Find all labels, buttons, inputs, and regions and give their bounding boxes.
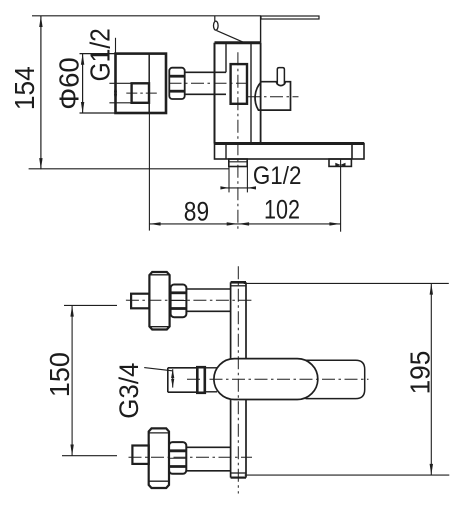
bottom knob lower cap line xyxy=(149,480,169,482)
lever underside diagonal xyxy=(217,31,244,43)
body left edge xyxy=(214,43,216,144)
G1/2 fitting arrow left xyxy=(220,186,229,189)
wall plate top edge xyxy=(215,142,365,145)
G3/4 arrow down xyxy=(171,379,174,388)
wall plate vertical right edge upper xyxy=(245,282,247,358)
dim 154 dimension line xyxy=(40,16,42,170)
handle bottom edge + extension xyxy=(80,112,167,114)
dim phi60 arrow up xyxy=(81,54,84,65)
G1/2 arrow down xyxy=(114,94,117,103)
top connector knob xyxy=(149,272,169,330)
dim phi60 dimension line xyxy=(82,54,84,114)
right outlet fitting xyxy=(329,159,351,166)
shower outlet flange band xyxy=(197,367,205,393)
svg-text:195: 195 xyxy=(405,351,436,395)
spout nose xyxy=(306,360,365,398)
bonnet band upper xyxy=(169,75,184,78)
handle thread small rect (G1/2) xyxy=(132,83,149,103)
bottom pipe top xyxy=(186,446,230,448)
svg-text:Φ60: Φ60 xyxy=(53,57,84,110)
wall plate vertical right edge lower xyxy=(245,400,247,478)
G1/2 fitting extension line left xyxy=(228,167,230,193)
wall plate left divider xyxy=(225,144,227,160)
dim phi60 arrow down xyxy=(81,102,84,113)
shower outlet tube bottom xyxy=(168,391,197,393)
dim 154 extension line top xyxy=(32,15,261,17)
bottom hex band lower xyxy=(169,465,186,468)
right fitting extension line xyxy=(340,159,342,232)
dim 195 dimension line xyxy=(430,283,432,475)
dim 150 dimension line xyxy=(71,305,73,455)
dim 150 extension line bottom xyxy=(62,455,117,457)
svg-text:G1/2: G1/2 xyxy=(85,28,116,81)
dim 195 arrow down xyxy=(430,464,433,475)
top pipe bottom xyxy=(186,310,230,312)
G1/2 fitting arrow right xyxy=(247,186,256,189)
bottom hex mid line xyxy=(169,457,186,459)
G3/4 arrow up xyxy=(171,369,174,378)
G1/2 fitting extension line right xyxy=(246,167,248,193)
arrows middle at 237.9 xyxy=(227,222,238,225)
bottom pipe bottom xyxy=(186,470,230,472)
plate vertical centerline xyxy=(237,266,239,493)
handle top edge + extension xyxy=(80,53,167,55)
wall plate top cap line xyxy=(231,285,246,287)
wall plate bottom cap line xyxy=(231,472,246,474)
dim 154 arrow down xyxy=(39,158,42,169)
top knob upper cap line xyxy=(149,274,169,276)
bottom connector axis centerline xyxy=(129,456,253,458)
handle body rect xyxy=(116,54,167,113)
top knob lower cap line xyxy=(149,326,169,328)
wall plate outline xyxy=(215,144,365,160)
handle axis centerline xyxy=(169,82,247,84)
shower outlet tube top xyxy=(168,367,197,369)
svg-text:102: 102 xyxy=(264,194,300,224)
check valve axis centerline xyxy=(248,96,299,98)
bottom knob upper cap line xyxy=(149,432,169,434)
lever base left tick xyxy=(214,16,216,21)
body right edge xyxy=(260,43,262,144)
dim 154 extension line bottom xyxy=(29,168,229,170)
top hex knurled nut xyxy=(171,285,187,318)
spout capsule body xyxy=(214,359,318,400)
stem pipe bottom xyxy=(185,93,226,95)
dim 195 arrow up xyxy=(430,283,433,294)
stem pipe top xyxy=(185,71,226,73)
dim 89/102 dimension line xyxy=(149,223,340,225)
svg-text:89: 89 xyxy=(184,197,209,227)
G1/2 fitting dimension line xyxy=(222,187,256,189)
wall plate vertical left edge upper xyxy=(230,282,232,358)
top hex band upper xyxy=(171,291,187,294)
G1/2 extension line bottom xyxy=(109,102,131,104)
top connector end cap xyxy=(131,294,149,309)
shower outlet tube left edge xyxy=(167,368,169,392)
wall plate right divider xyxy=(351,144,353,160)
thread centerline xyxy=(126,92,159,94)
G3/4 leader line xyxy=(144,368,172,371)
left inlet fitting xyxy=(229,159,247,167)
lever pivot ellipse xyxy=(214,21,219,30)
bottom hex knurled nut xyxy=(169,442,186,474)
body vertical centerline xyxy=(237,52,239,229)
check valve body xyxy=(255,82,290,110)
body inner right line xyxy=(250,43,252,144)
shower outlet neck bottom xyxy=(206,391,218,393)
wall plate vertical left edge lower xyxy=(230,400,232,478)
body inner left line xyxy=(225,43,227,73)
dim 154 arrow up xyxy=(39,16,42,27)
svg-text:G1/2: G1/2 xyxy=(253,162,302,190)
svg-text:154: 154 xyxy=(9,66,40,110)
arrow right at 340.6 xyxy=(329,222,340,225)
top hex band lower xyxy=(171,307,187,310)
top pipe top xyxy=(186,288,230,290)
spout axis centerline xyxy=(187,378,369,380)
lever base right edge xyxy=(260,16,262,43)
dim 150 extension line top xyxy=(64,304,117,306)
left inlet fitting midline xyxy=(229,161,247,163)
shower outlet neck top xyxy=(206,367,218,369)
G3/4 small dimension line xyxy=(172,369,174,387)
bottom connector end cap xyxy=(132,446,148,464)
cartridge rect xyxy=(231,64,247,104)
lever handle bar xyxy=(261,16,319,19)
bonnet band lower xyxy=(169,90,184,93)
handle inner line xyxy=(148,54,150,113)
top connector axis centerline xyxy=(126,299,252,301)
dim 195 extension line bottom xyxy=(245,474,450,476)
G1/2 arrow up xyxy=(114,83,117,92)
dim 195 extension line top xyxy=(244,282,449,284)
bonnet knurled nut xyxy=(169,68,184,99)
top hex mid line xyxy=(171,300,187,302)
bottom hex band upper xyxy=(169,449,186,452)
G1/2 extension line top xyxy=(109,82,131,84)
dim 150 arrow down xyxy=(70,445,73,456)
arrow left at 149.4 xyxy=(149,222,160,225)
check valve stem xyxy=(277,68,284,85)
extension line down from handle inner line (89 dim) xyxy=(148,113,150,231)
right fitting arrow marks xyxy=(335,163,340,167)
body top edge xyxy=(215,41,261,44)
bottom connector knob xyxy=(149,428,169,488)
wall plate top edge thick xyxy=(231,281,246,284)
wall plate bottom edge thick xyxy=(231,477,246,479)
G1/2 dimension line xyxy=(115,38,117,103)
dim 150 arrow up xyxy=(70,305,73,316)
svg-text:150: 150 xyxy=(44,352,75,397)
svg-text:G3/4: G3/4 xyxy=(114,363,144,419)
